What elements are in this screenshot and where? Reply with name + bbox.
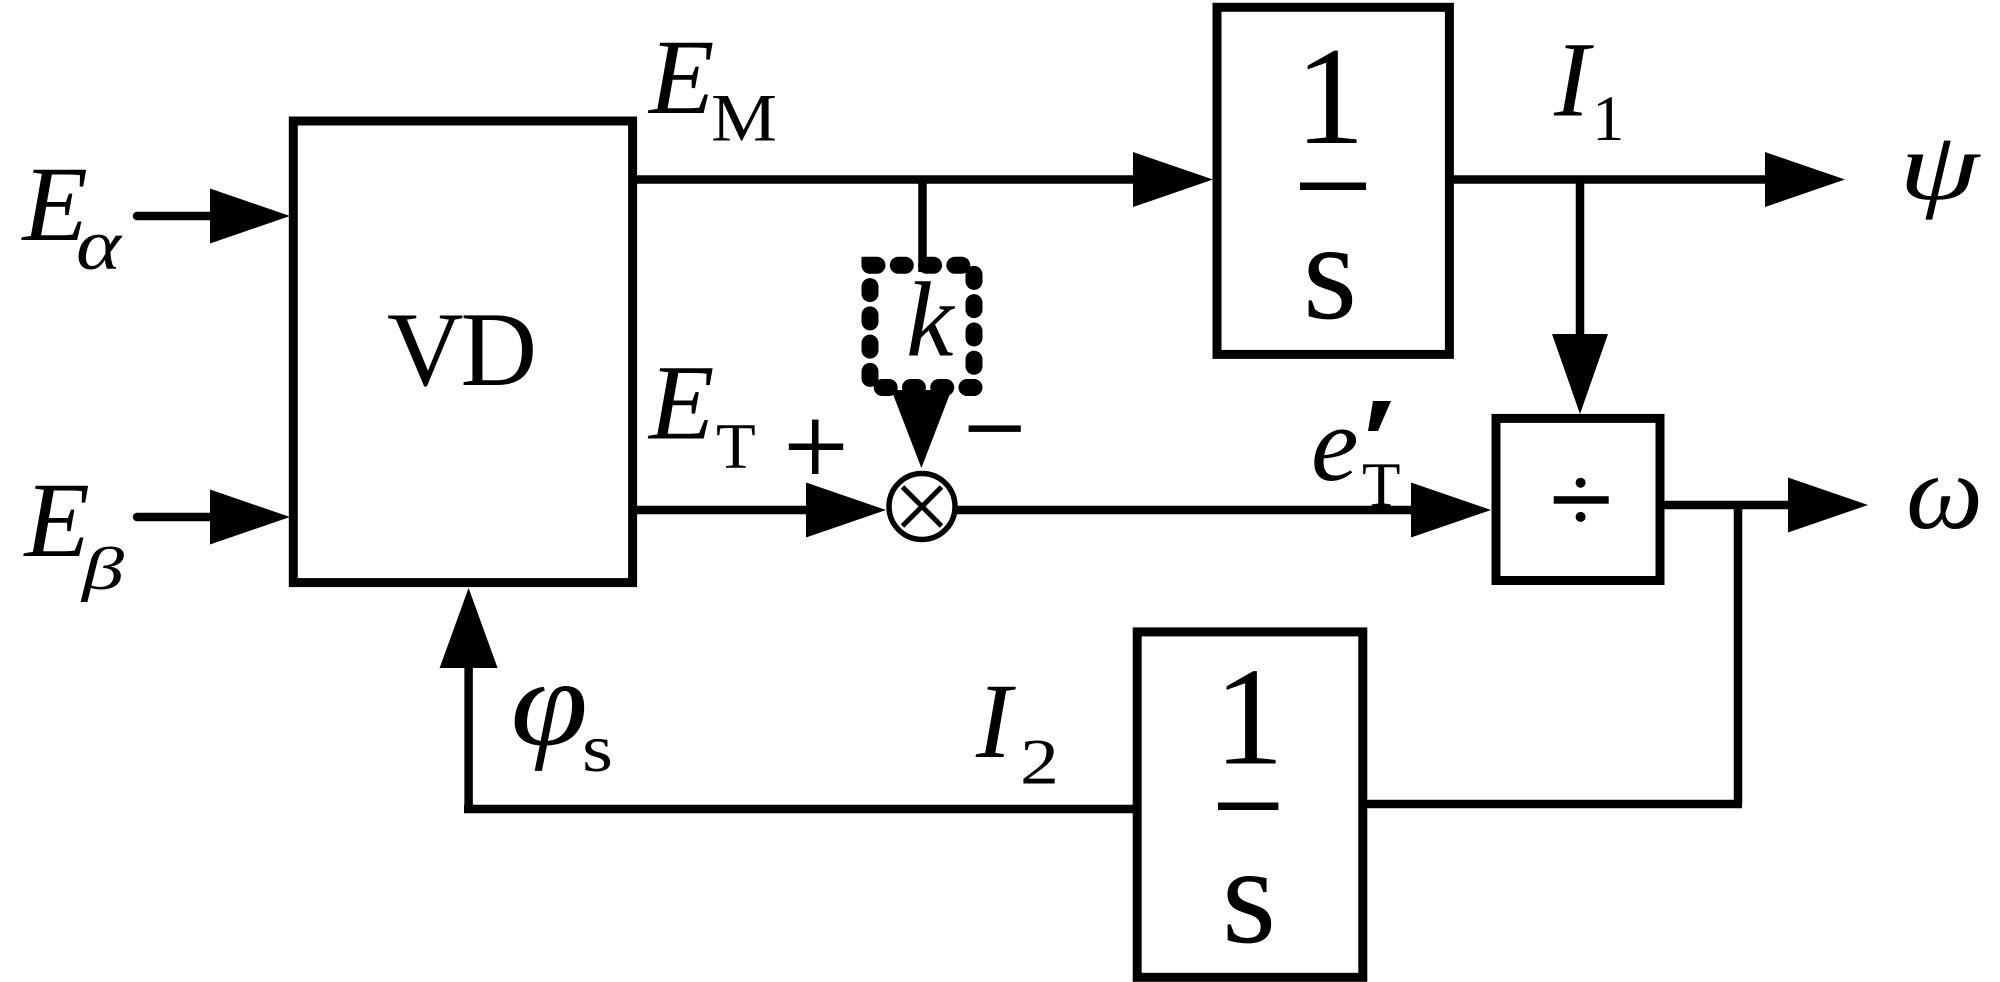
wire arrow E_beta into VD <box>137 490 290 545</box>
wire omega output from divider <box>1660 478 1868 533</box>
svg-text:T: T <box>716 411 756 483</box>
svg-text:E: E <box>647 345 714 463</box>
wire feedback: horizontal into U2 right side <box>1363 800 1742 809</box>
wire E_T from VD to multiplier (plus input) <box>633 483 886 538</box>
svg-text:1: 1 <box>1592 83 1625 155</box>
svg-text:e: e <box>1311 386 1359 504</box>
wire feedback: vertical drop from omega line <box>1734 505 1743 804</box>
svg-text:s: s <box>582 710 613 786</box>
arrow from k into multiplier (minus input) <box>891 390 951 468</box>
svg-text:s: s <box>1303 194 1357 349</box>
label phi_s <box>511 634 614 786</box>
label e'_T <box>1311 386 1400 520</box>
wire branch I_1 down into divider <box>1552 180 1608 415</box>
wire e'_T from multiplier to divider <box>955 483 1491 538</box>
label plus sign <box>789 420 843 474</box>
block VD (voltage decomposition) <box>293 121 632 583</box>
label E_T <box>647 345 756 483</box>
svg-text:E: E <box>23 462 90 580</box>
svg-text:k: k <box>906 262 956 380</box>
svg-text:ω: ω <box>1906 434 1983 552</box>
gain block k (dashed) <box>870 262 974 388</box>
svg-text:1: 1 <box>1295 19 1365 174</box>
svg-text:1: 1 <box>1214 640 1284 795</box>
wire arrow E_alpha into VD <box>137 189 290 244</box>
label E_alpha <box>21 146 123 285</box>
wire E_M from VD to integrator U1 <box>633 152 1213 207</box>
wire feedback: vertical rise to VD with arrow phi_s <box>440 588 498 809</box>
svg-text:E: E <box>647 19 714 137</box>
wire I_1 from U1 to psi output <box>1449 152 1845 207</box>
label I_1 <box>1553 22 1625 156</box>
svg-text:ψ: ψ <box>1899 113 1981 220</box>
svg-text:I: I <box>1553 22 1594 140</box>
svg-text:β: β <box>81 536 125 602</box>
label minus sign <box>969 425 1021 432</box>
label I_2 <box>975 663 1059 799</box>
svg-text:2: 2 <box>1020 727 1059 799</box>
wire branch from E_M down to k <box>918 180 927 273</box>
wire I_2 from U2 left side to feedback corner <box>464 805 1137 814</box>
block U2 integrator 1/s (bottom) <box>1137 632 1363 977</box>
svg-text:α: α <box>76 205 122 285</box>
label E_beta <box>23 462 125 602</box>
svg-text:φ: φ <box>511 634 589 772</box>
svg-text:s: s <box>1222 818 1276 973</box>
svg-text:VD: VD <box>387 291 534 408</box>
svg-text:I: I <box>975 663 1016 781</box>
block divider ÷ <box>1496 418 1660 580</box>
label E_M <box>647 19 777 156</box>
svg-text:M: M <box>711 80 777 156</box>
block U1 integrator 1/s (top) <box>1217 7 1449 354</box>
multiplier node (circle with X) <box>889 474 955 540</box>
